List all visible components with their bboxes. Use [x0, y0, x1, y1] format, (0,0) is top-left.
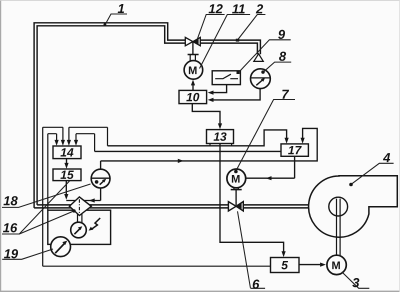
wire: box14 to box15: [66, 159, 68, 164]
wire: feed rail lower above box 14: [48, 133, 95, 135]
wire: box 17 down via L3 junction to motor M7: [246, 156, 295, 178]
leader 6: [238, 211, 266, 288]
leader 7: [236, 100, 295, 171]
vent triangle (air intake symbol): [254, 54, 263, 62]
arrowhead into box 13: [218, 123, 222, 129]
leader 1 attachment dot on pipe: [104, 23, 107, 26]
svg-text:2: 2: [255, 1, 264, 16]
wire: TE sensor riser to L3: [100, 161, 102, 170]
wire: duct pipe 1 outer line (top-left loop): [34, 23, 185, 208]
wire: hook line to diamond: [66, 200, 100, 202]
box 5: [271, 258, 300, 273]
svg-text:9: 9: [278, 27, 286, 42]
valve 12 stem: [192, 43, 194, 55]
radiation zigzag arrow: [92, 218, 100, 229]
arrowhead pointing left into diamond: [89, 198, 95, 202]
svg-text:1: 1: [117, 1, 124, 16]
arrowhead into M11: [191, 80, 195, 86]
svg-text:12: 12: [208, 1, 223, 16]
leader 12: [197, 15, 224, 40]
leader-16 attachment dot: [72, 209, 75, 212]
wire: duct pipe 1 inner line: [37, 26, 185, 205]
motor M 11 (valve actuator): [184, 61, 203, 80]
sensor circle 19: [51, 237, 71, 257]
leader 16 upper: [2, 181, 70, 234]
wire: bus L1 to box 17 first input: [108, 130, 287, 146]
wire: rail leg down to L2: [94, 134, 96, 152]
leader 4 dot: [349, 183, 353, 187]
wire: box 9 output to box 10: [213, 85, 226, 93]
valve 6 stem: [235, 190, 237, 206]
fan hub circle: [329, 197, 348, 216]
svg-text:M: M: [188, 65, 197, 77]
wire: circle 8 output to box 10: [213, 89, 260, 100]
fan 4 scroll body with outlet duct: [309, 176, 398, 237]
wire: four drops into box 14: [57, 127, 76, 140]
valve 6 coupling bar: [231, 189, 242, 191]
needle arrow inside circle 19: [55, 244, 64, 254]
arrowhead into motor 3: [320, 263, 326, 267]
wire: long left vertical to bottom line: [42, 127, 44, 266]
svg-text:14: 14: [60, 146, 74, 160]
svg-text:6: 6: [252, 277, 260, 292]
mixer diamond 16: [69, 197, 91, 216]
arrowhead toward motor M7: [266, 176, 272, 180]
arrowhead into box 10 upper: [208, 91, 214, 95]
svg-text:7: 7: [281, 87, 289, 102]
mid arrowhead on bus L3: [178, 159, 184, 163]
svg-text:11: 11: [232, 1, 246, 16]
motor M 7 (valve 6 actuator): [227, 169, 246, 188]
svg-text:16: 16: [3, 220, 18, 235]
valve 12 right triangle (open): [193, 37, 200, 45]
chord inside TE: [91, 177, 110, 179]
leader-8 attachment dot: [261, 70, 264, 73]
valve 6 coupling legs: [234, 188, 238, 190]
wire: bus L2: [95, 150, 281, 152]
arrowhead into box 10 lower: [208, 98, 214, 102]
wire: box 10 down to box 13: [192, 104, 220, 125]
wire: left vertical to furnace box: [47, 134, 49, 211]
box 13 bottom stubs to bus L1: [210, 144, 232, 146]
leader-9 attachment square on box 9: [237, 71, 240, 74]
leader 16 lower to diamond dot: [19, 211, 73, 234]
svg-text:19: 19: [4, 246, 19, 261]
sensor circle 8: [251, 69, 271, 89]
svg-text:10: 10: [186, 90, 200, 104]
needle inside TE: [100, 180, 105, 185]
svg-text:M: M: [332, 260, 341, 272]
svg-text:13: 13: [213, 130, 227, 144]
svg-text:5: 5: [281, 258, 288, 272]
box 9 (switch unit): [212, 71, 240, 85]
wire: long bottom line to box 5: [43, 265, 271, 267]
wire: duct pipe 2 after valve (to vent) outer: [200, 40, 260, 54]
valve 6 inner arrow: [236, 203, 242, 211]
photocell circle (element 18 group): [71, 222, 87, 238]
valve 12 coupling bar: [188, 54, 199, 56]
leader 11: [200, 15, 251, 69]
arrowhead into box 15: [64, 163, 68, 169]
svg-text:8: 8: [279, 49, 287, 64]
dash-dot inside diamond: [78, 199, 80, 213]
wire: rail leg down to L1: [107, 127, 109, 146]
svg-text:M: M: [231, 174, 240, 186]
box 15: [53, 169, 81, 181]
sensor circle TE: [91, 169, 110, 188]
wire: box10 to motor M11: [192, 85, 194, 91]
motor M 3: [327, 255, 346, 274]
arrowhead into box 5 top: [282, 251, 286, 257]
leader 1: [105, 14, 127, 25]
svg-text:15: 15: [60, 168, 74, 182]
switch contact symbol inside box 9: [215, 74, 238, 79]
wire: feed rail upper above box 14: [43, 126, 108, 128]
fork stubs diamond to photocell: [78, 214, 82, 223]
arrowhead into box 17 input 1: [285, 138, 289, 144]
valve 6 right triangle (open): [236, 202, 243, 211]
junction square for leader 2: [236, 39, 239, 42]
wire: duct pipe 2 after valve inner: [200, 43, 257, 54]
box 14: [53, 146, 81, 159]
chord inside circle 8: [251, 77, 271, 79]
arrowheads into box 14: [55, 140, 79, 146]
leader-7 attachment dot: [234, 170, 238, 174]
leader 3: [342, 272, 370, 288]
valve 12 left triangle (open): [185, 37, 193, 45]
scan edge artifacts: [0, 0, 1, 292]
leader 2: [238, 15, 265, 40]
wire: bus L3 from sensor TE to box 17 second input: [101, 128, 318, 161]
leader 8: [264, 62, 292, 72]
needle arrow inside circle 8: [256, 79, 263, 85]
wire: TE sensor drop to hook: [100, 188, 102, 201]
valve 12 coupling legs: [190, 55, 195, 61]
box 17: [281, 144, 308, 156]
wire: vertical from box13 to box 5 feed: [220, 144, 284, 253]
needle arrow inside photocell: [74, 228, 80, 234]
valve 6 left triangle (open): [228, 202, 236, 211]
fan shaft double line: [337, 199, 341, 256]
svg-text:18: 18: [3, 193, 18, 208]
furnace enclosure box: [48, 210, 111, 244]
valve 12 inner arrow: [193, 38, 199, 45]
svg-text:17: 17: [288, 143, 303, 157]
regulator box 13: [207, 130, 234, 144]
wire: box15 output down: [65, 181, 67, 195]
dot inside TE: [95, 180, 99, 184]
wire: bottom duct lower line: [34, 207, 309, 209]
arrowhead down from box 15: [64, 194, 68, 200]
arrowhead into box 17 input 2: [301, 138, 305, 144]
leader 19: [2, 249, 53, 259]
wire: box 5 to motor 3: [299, 264, 320, 266]
controller box 10: [179, 90, 207, 103]
leader 9: [240, 40, 290, 71]
wire: bottom duct upper line: [37, 204, 309, 206]
leader 4: [352, 163, 394, 183]
svg-text:3: 3: [352, 275, 360, 290]
svg-text:4: 4: [382, 150, 391, 165]
leader 18: [2, 184, 91, 207]
